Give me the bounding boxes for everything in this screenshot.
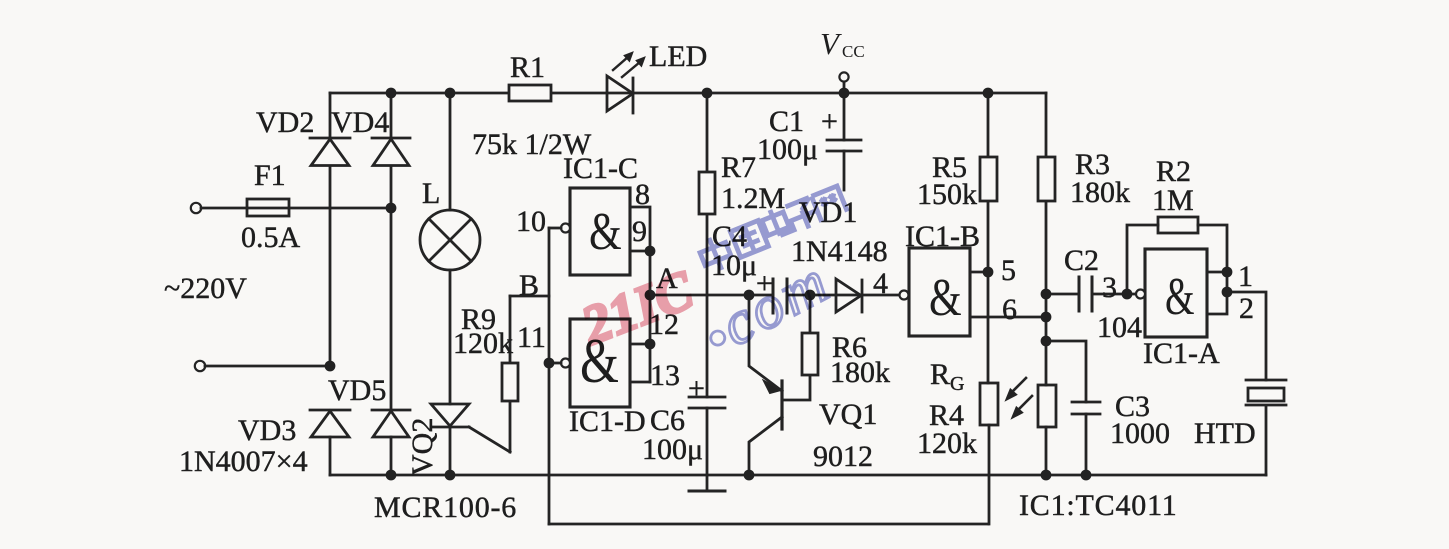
LED D	[607, 76, 633, 113]
svg-text:IC1-D: IC1-D	[569, 405, 646, 438]
ground	[689, 490, 725, 493]
wire IC1-D pins 12 13	[630, 344, 650, 382]
terminal live input	[191, 203, 201, 213]
wire R3 column	[1045, 93, 1048, 475]
svg-text:10: 10	[516, 205, 546, 238]
junction dots bottom bus	[386, 470, 1092, 481]
gate IC1-D	[549, 319, 630, 407]
svg-text:180k: 180k	[1070, 176, 1130, 209]
watermark com blue	[694, 247, 842, 368]
capacitor C2	[1046, 277, 1136, 311]
gate IC1-C	[549, 188, 630, 275]
wire neutral line	[205, 365, 330, 368]
resistor R4	[1038, 385, 1056, 427]
svg-text:2: 2	[1239, 292, 1254, 325]
svg-text:21IC: 21IC	[573, 258, 703, 356]
wire to buzzer	[1227, 292, 1266, 380]
watermark hanzi zhong	[696, 233, 735, 275]
terminal Vcc	[839, 72, 848, 81]
watermark hanzi guo	[730, 221, 768, 258]
resistor R6	[802, 295, 818, 375]
wire node B line	[510, 295, 549, 298]
resistor R7	[699, 172, 715, 214]
svg-text:MCR100-6: MCR100-6	[374, 491, 517, 524]
diode VD2	[310, 138, 350, 166]
svg-text:1.2M: 1.2M	[721, 182, 785, 215]
capacitor C4	[773, 279, 787, 313]
svg-text:R7: R7	[721, 151, 756, 184]
svg-text:&: &	[1165, 267, 1195, 326]
resistor R1	[509, 85, 551, 101]
svg-text:IC1-C: IC1-C	[563, 152, 638, 185]
diode VD3	[310, 410, 350, 437]
capacitor C1	[827, 93, 861, 190]
light arrows RG	[1006, 378, 1032, 418]
svg-text:8: 8	[635, 178, 650, 211]
svg-text:13: 13	[650, 359, 680, 392]
diode VD5	[372, 410, 410, 437]
svg-text:+: +	[688, 372, 705, 405]
watermark hanzi dian	[759, 204, 794, 239]
wire IC1-B pin6	[970, 316, 1046, 319]
LED arrows	[613, 52, 645, 77]
fuse F1	[247, 199, 289, 216]
svg-text:1N4007×4: 1N4007×4	[179, 445, 308, 478]
wire feedback bottom line	[549, 523, 988, 526]
junction dots middle	[325, 203, 1233, 372]
buzzer HTD	[1246, 380, 1286, 475]
lamp L	[420, 210, 480, 270]
svg-text:C2: C2	[1064, 244, 1099, 277]
svg-text:5: 5	[1001, 254, 1016, 287]
svg-text:0.5A: 0.5A	[241, 221, 301, 254]
diode VD4	[372, 138, 410, 166]
svg-text:IC1-B: IC1-B	[905, 220, 980, 253]
wire bottom bus	[330, 474, 1266, 477]
diode VD1	[836, 279, 862, 312]
svg-text:VQ1: VQ1	[819, 398, 877, 431]
watermark hanzi zi	[782, 196, 823, 235]
wire IC1-A pin1 pin2	[1207, 272, 1227, 314]
svg-text:B: B	[519, 269, 539, 302]
svg-text:9: 9	[632, 215, 647, 248]
wire IC1-C pins 8 9 column	[630, 207, 650, 382]
wire VD4 column	[390, 93, 393, 475]
thyristor VQ2	[431, 404, 510, 452]
svg-text:150k: 150k	[917, 178, 977, 211]
svg-text:L: L	[422, 177, 440, 210]
svg-text:1000: 1000	[1110, 417, 1170, 450]
svg-text:VD5: VD5	[328, 374, 386, 407]
wire Vcc stub	[843, 82, 846, 93]
svg-text:~220V: ~220V	[164, 272, 247, 305]
svg-text:100μ: 100μ	[757, 133, 818, 166]
transistor VQ1	[749, 295, 810, 475]
resistor R9	[502, 296, 518, 452]
svg-text:IC1-A: IC1-A	[1143, 337, 1220, 370]
svg-text:11: 11	[517, 321, 546, 354]
gate IC1-A	[1136, 249, 1207, 337]
resistor R3	[1038, 157, 1055, 201]
svg-text:9012: 9012	[813, 440, 873, 473]
svg-text:VD3: VD3	[238, 414, 296, 447]
svg-text:CC: CC	[842, 42, 865, 61]
resistor R2	[1127, 217, 1227, 294]
svg-text:1M: 1M	[1152, 184, 1194, 217]
resistor R5	[980, 93, 997, 383]
svg-text:HTD: HTD	[1194, 417, 1256, 450]
gate IC1-B	[900, 248, 971, 336]
svg-text:&: &	[589, 202, 622, 261]
svg-text:LED: LED	[649, 40, 707, 73]
svg-text:104: 104	[1097, 311, 1142, 344]
capacitor C6	[689, 397, 725, 408]
svg-text:IC1:TC4011: IC1:TC4011	[1019, 489, 1178, 522]
watermark hanzi wang	[811, 186, 847, 222]
svg-text:R1: R1	[510, 51, 545, 84]
wire top supply bus	[330, 92, 1046, 95]
svg-text:&: &	[929, 268, 962, 327]
wire node A line	[650, 294, 899, 297]
wire R7 C6 column	[706, 93, 709, 489]
svg-text:120k: 120k	[453, 327, 513, 360]
wire VD2 column	[329, 93, 332, 475]
wire IC1-B pin5	[970, 271, 988, 274]
svg-text:6: 6	[1002, 293, 1017, 326]
svg-text:VD4: VD4	[331, 106, 389, 139]
svg-text:180k: 180k	[830, 356, 890, 389]
terminal neutral input	[195, 361, 205, 371]
svg-text:120k: 120k	[917, 427, 977, 460]
junction dots top bus	[386, 88, 994, 99]
svg-text:VQ2: VQ2	[406, 418, 439, 476]
wire lamp column	[449, 93, 452, 475]
svg-text:1: 1	[1238, 260, 1253, 293]
photoresistor RG	[980, 383, 998, 524]
capacitor C3	[1046, 341, 1100, 475]
wire node B column	[548, 228, 551, 524]
svg-text:F1: F1	[254, 159, 286, 192]
wire fuse line	[201, 207, 391, 210]
svg-text:V: V	[820, 26, 842, 61]
svg-text:+: +	[821, 105, 838, 138]
svg-text:VD2: VD2	[256, 106, 314, 139]
svg-text:4: 4	[873, 267, 888, 300]
svg-text:100μ: 100μ	[642, 433, 703, 466]
svg-text:RG: RG	[930, 358, 964, 395]
svg-text:3: 3	[1102, 271, 1117, 304]
